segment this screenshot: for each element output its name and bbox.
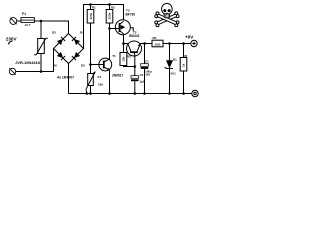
node C1 bottom — [143, 92, 146, 95]
svg-text:2N6517: 2N6517 — [112, 74, 123, 78]
wire — [16, 49, 54, 72]
wire R1 to T1 base — [90, 23, 92, 74]
node varistor bottom — [40, 70, 43, 73]
resistor R3 — [120, 44, 127, 66]
wire R2 down — [109, 23, 111, 60]
svg-text:R3: R3 — [127, 54, 131, 58]
AC tilde mark — [8, 41, 12, 45]
svg-text:C2: C2 — [140, 73, 144, 77]
node T1 emitter — [108, 92, 111, 95]
node R4 top — [182, 42, 185, 45]
output terminal 0V — [192, 90, 198, 96]
svg-text:BD441: BD441 — [129, 34, 139, 38]
preset P1 — [86, 72, 95, 94]
svg-text:F1: F1 — [22, 12, 26, 16]
wire T3 emitter down — [123, 34, 125, 44]
svg-text:R4: R4 — [184, 54, 188, 58]
wire R3 bottom to T2 base line — [124, 66, 135, 67]
svg-text:R2: R2 — [111, 6, 115, 10]
wire — [34, 20, 68, 22]
node T3 base — [108, 27, 111, 30]
wire — [163, 43, 191, 45]
node P1 bottom — [89, 92, 92, 95]
resistor R1 — [87, 5, 94, 24]
svg-text:D5: D5 — [81, 64, 85, 68]
node P1 wiper — [86, 92, 89, 95]
svg-text:4x 1N4007: 4x 1N4007 — [57, 76, 74, 80]
skull warning icon — [155, 3, 179, 26]
wire T3 base — [110, 28, 120, 30]
resistor R4 — [180, 44, 187, 94]
varistor lead — [40, 21, 42, 39]
diode D4 — [72, 37, 80, 45]
svg-text:D1: D1 — [173, 58, 177, 62]
diode D3 — [57, 37, 65, 45]
svg-text:BF730: BF730 — [126, 12, 136, 16]
node T1 base / P1 — [89, 63, 92, 66]
varistor JVR — [34, 38, 48, 55]
svg-text:10Ω: 10Ω — [155, 43, 161, 47]
svg-text:JVR-10N431K: JVR-10N431K — [15, 60, 40, 65]
diode D5 — [72, 52, 80, 60]
capacitor C1 — [141, 44, 149, 94]
svg-text:R1: R1 — [92, 5, 96, 9]
node C2 bottom — [134, 92, 137, 95]
emitter rail of T2 to +9V — [140, 43, 152, 45]
wire to T2 collector — [124, 43, 129, 45]
svg-text:D3: D3 — [52, 31, 56, 35]
node fuse/varistor junction — [40, 20, 43, 23]
zener diode D1 — [165, 44, 173, 94]
svg-text:D6: D6 — [53, 64, 57, 68]
svg-text:+9V: +9V — [185, 35, 194, 40]
transistor T3 BF730 — [115, 20, 133, 35]
node R2 top — [108, 3, 111, 6]
wire T1 base — [91, 64, 104, 66]
node C1 top — [143, 42, 146, 45]
svg-text:1A T: 1A T — [25, 23, 31, 27]
wire — [68, 21, 70, 34]
mains terminal top — [10, 18, 17, 25]
svg-text:5V1: 5V1 — [171, 72, 177, 76]
node R1 top — [89, 3, 92, 6]
bridge plus lead — [84, 5, 124, 49]
bottom 0V rail — [69, 93, 193, 95]
node T3 emitter / T2 collector / R3 — [122, 42, 125, 45]
svg-text:R5: R5 — [153, 36, 157, 40]
bridge rectifier diamond — [54, 34, 84, 64]
svg-text:C1: C1 — [145, 60, 149, 64]
capacitor C2 — [131, 76, 139, 94]
fuse F1 — [21, 18, 34, 23]
node zener top — [168, 42, 171, 45]
node R4 bottom — [182, 92, 185, 95]
svg-text:220k: 220k — [108, 12, 112, 19]
output terminal +9V — [191, 40, 197, 46]
svg-text:P1: P1 — [98, 75, 102, 79]
resistor R5 — [152, 40, 163, 47]
svg-text:10k: 10k — [98, 82, 103, 86]
transistor T1 2N6517 — [99, 58, 112, 71]
varistor bottom lead — [40, 54, 42, 72]
resistor R2 — [106, 5, 113, 24]
node base/C2/R3 — [134, 65, 137, 68]
svg-text:220k: 220k — [89, 12, 93, 19]
svg-text:10k: 10k — [122, 56, 126, 61]
svg-text:T1: T1 — [112, 54, 116, 58]
mains terminal bottom — [9, 68, 15, 74]
wire — [17, 20, 21, 22]
diode D6 — [57, 52, 65, 60]
bridge minus lead — [68, 64, 70, 94]
wire T1 emitter — [109, 70, 111, 93]
wire T2 base down — [134, 56, 136, 76]
node zener bottom — [168, 92, 171, 95]
svg-text:16V: 16V — [145, 72, 150, 76]
transistor T2 BD441 — [127, 41, 142, 56]
svg-text:1k: 1k — [182, 63, 186, 67]
wire T1 collector — [109, 29, 111, 60]
